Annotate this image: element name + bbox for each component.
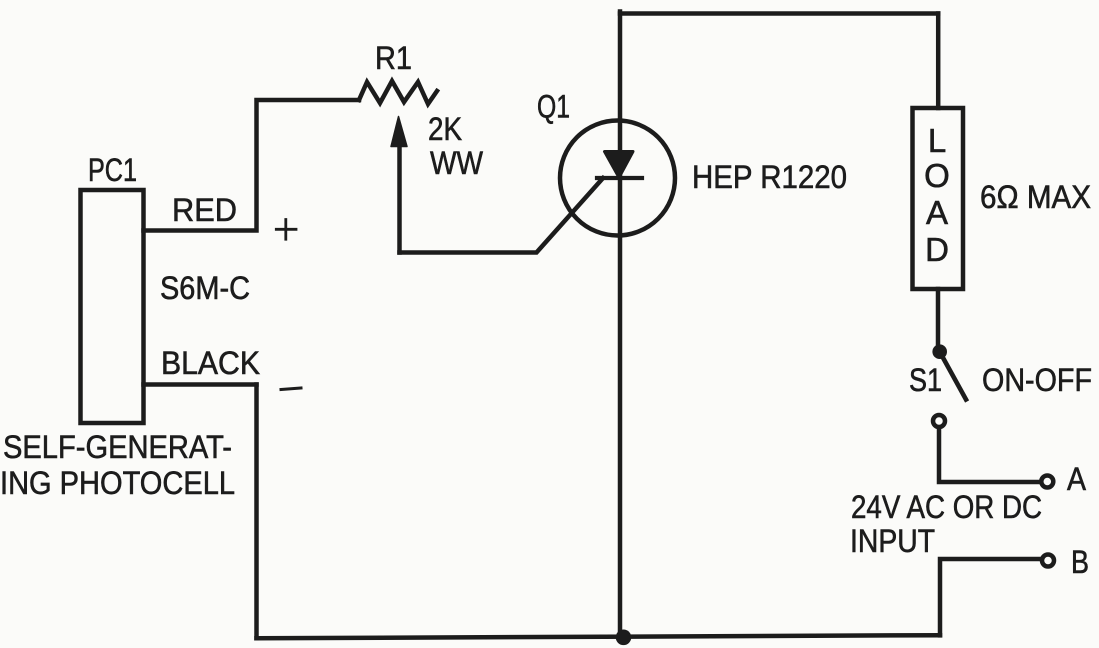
wire terminal B to bottom rail [940, 559, 1041, 635]
wire left vertical down to bottom rail [254, 385, 259, 639]
switch S1 pivot junction dot [932, 344, 947, 359]
SCR Q1 circle [560, 121, 675, 236]
svg-text:ON-OFF: ON-OFF [982, 362, 1092, 398]
svg-text:O: O [924, 157, 950, 194]
wire bottom rail [257, 635, 941, 638]
switch S1 blade [942, 355, 967, 400]
junction dot bottom rail [616, 630, 632, 646]
svg-text:S6M-C: S6M-C [160, 270, 250, 306]
SCR Q1 triangle [605, 152, 634, 178]
load resistor box [913, 108, 964, 289]
wire switch to terminal A [939, 430, 1040, 483]
svg-text:D: D [925, 231, 949, 268]
wire wiper to SCR gate [400, 178, 604, 253]
plus polarity mark [276, 220, 296, 240]
svg-text:PC1: PC1 [88, 152, 137, 188]
potentiometer wiper arrow shaft [397, 144, 402, 253]
svg-text:BLACK: BLACK [161, 345, 260, 381]
svg-text:INPUT: INPUT [850, 523, 935, 559]
minus polarity mark [281, 388, 301, 390]
terminal B circle [1042, 555, 1054, 567]
wire RED lead from PC1 up to R1 [144, 100, 360, 231]
svg-text:R1: R1 [375, 40, 412, 76]
svg-text:L: L [928, 122, 946, 159]
wire LOAD to switch S1 [936, 289, 941, 352]
svg-text:ING PHOTOCELL: ING PHOTOCELL [0, 465, 235, 501]
svg-text:S1: S1 [909, 362, 942, 398]
photocell PC1 body [81, 190, 144, 423]
wire top rail to LOAD [936, 14, 941, 109]
terminal A circle [1041, 476, 1053, 488]
switch S1 open contact circle [933, 415, 945, 427]
svg-text:HEP R1220: HEP R1220 [692, 159, 847, 195]
svg-text:24V AC OR DC: 24V AC OR DC [851, 489, 1042, 525]
svg-text:SELF-GENERAT-: SELF-GENERAT- [3, 429, 232, 465]
SCR Q1 cathode bar [597, 176, 642, 180]
svg-text:2K: 2K [428, 111, 462, 147]
svg-text:A: A [926, 194, 948, 231]
wire top rail [620, 11, 938, 16]
svg-text:A: A [1067, 461, 1087, 497]
svg-text:6Ω MAX: 6Ω MAX [980, 179, 1091, 215]
wire BLACK lead from PC1 [144, 382, 257, 387]
potentiometer wiper arrow head [391, 117, 407, 147]
svg-text:RED: RED [172, 192, 237, 228]
svg-text:B: B [1071, 544, 1089, 580]
SCR Q1 anode-cathode vertical line [618, 12, 623, 638]
resistor R1 zigzag [359, 81, 437, 104]
svg-text:WW: WW [430, 145, 484, 181]
svg-text:Q1: Q1 [537, 89, 570, 125]
